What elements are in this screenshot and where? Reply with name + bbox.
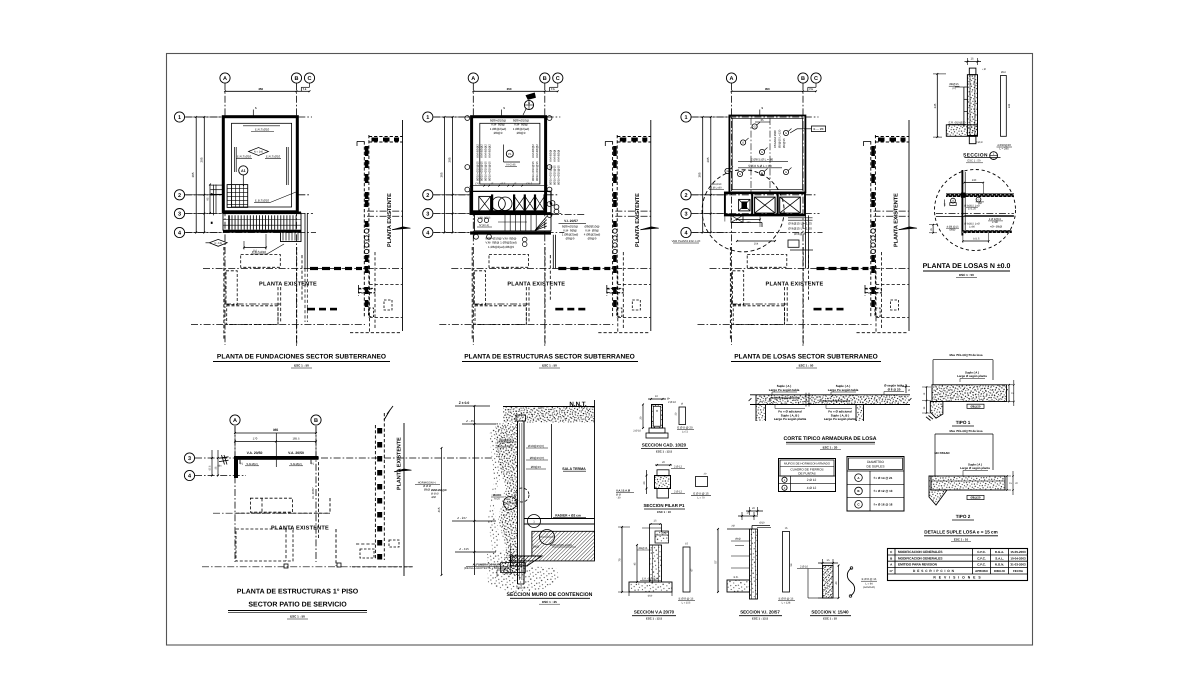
svg-text:3: 3 xyxy=(178,212,181,218)
svg-text:EMPLANTILLADO: EMPLANTILLADO xyxy=(550,544,572,547)
svg-text:2 Ø 12: 2 Ø 12 xyxy=(674,491,683,494)
svg-text:Ø8@: Ø8@ xyxy=(949,228,955,231)
svg-text:2: 2 xyxy=(684,193,687,199)
svg-text:245: 245 xyxy=(933,103,937,108)
muro: wall top cap xyxy=(516,415,526,421)
svg-text:Ø8@15: Ø8@15 xyxy=(949,83,959,86)
section VA: left long dim xyxy=(621,527,623,592)
plan1: axis line 3 horizontal xyxy=(185,213,313,215)
plan2: existing room box lower xyxy=(475,306,526,325)
revision table: column lines xyxy=(894,549,896,575)
plan 3: lower-left notch box xyxy=(731,215,743,222)
svg-text:SECCION CAD. 10/20: SECCION CAD. 10/20 xyxy=(642,443,687,448)
plan3: heavy dash wall on upper axis xyxy=(817,267,825,270)
plan 4: title underline xyxy=(228,610,367,612)
svg-text:B: B xyxy=(314,418,318,424)
plan1: existing building cut line vertical solid xyxy=(402,120,404,331)
svg-text:C.P.C.: C.P.C. xyxy=(977,550,986,554)
plan 2: room corner circles and stub xyxy=(550,201,555,206)
svg-text:Ø8@15: Ø8@15 xyxy=(531,465,542,469)
plan 2: wall pin circles left xyxy=(465,116,470,121)
plan3: grid bubble 2 xyxy=(681,190,691,200)
plan 4: P1 tick marks on beam xyxy=(239,460,241,464)
plan2: grid bubble A xyxy=(468,73,478,83)
plan2: existing wall vertical dashed mid xyxy=(544,247,546,344)
svg-text:CORTE TIPICO ARMADURA DE LOSA: CORTE TIPICO ARMADURA DE LOSA xyxy=(784,436,877,442)
losa detail: texts top-right mark xyxy=(976,197,981,202)
svg-text:Max 70/L=Ø@70 de losa: Max 70/L=Ø@70 de losa xyxy=(950,353,983,357)
svg-text:V.A. 20/50: V.A. 20/50 xyxy=(288,451,304,455)
plan3: axis line B vertical xyxy=(802,83,804,347)
losa detail: top dim 130 xyxy=(964,182,983,184)
svg-text:PLANTA DE LOSAS N ±0.0: PLANTA DE LOSAS N ±0.0 xyxy=(923,263,1011,270)
plan3: existing right rooms xyxy=(864,285,866,296)
svg-text:E.B.S.Ø10: E.B.S.Ø10 xyxy=(255,199,270,203)
svg-text:2: 2 xyxy=(178,193,181,199)
losa detail: vertical wall line xyxy=(961,170,963,236)
plan2: grid bubble 1 xyxy=(423,112,433,122)
svg-text:PLANTA EXISTENTE: PLANTA EXISTENTE xyxy=(397,437,403,490)
svg-text:PLANTA EXISTENTE: PLANTA EXISTENTE xyxy=(259,282,317,288)
tipo1: right dims xyxy=(1008,385,1010,402)
svg-text:P1: P1 xyxy=(508,152,512,156)
pilar p1: lower body xyxy=(657,489,669,499)
corte tipico: left wall leg xyxy=(755,395,757,421)
plan 2: dim row above beam band xyxy=(471,185,547,187)
plan1: axis line 2 horizontal xyxy=(185,194,310,196)
svg-text:385: 385 xyxy=(440,172,444,177)
plan 3: detail reference dashed circle xyxy=(702,170,784,252)
plan 1: small dim bottom xyxy=(244,247,266,249)
plan 4: grid bubble 3 xyxy=(184,453,194,463)
plan 2: column band xyxy=(470,191,551,214)
plan1: grid bubble C xyxy=(304,73,314,83)
plan2: heavy dash wall below B xyxy=(555,308,563,311)
svg-text:E Ø 8 @ 15: E Ø 8 @ 15 xyxy=(779,597,794,601)
plan 3: step line below band xyxy=(731,222,762,224)
svg-text:PLANTA DE FUNDACIONES SECTOR S: PLANTA DE FUNDACIONES SECTOR SUBTERRANEO xyxy=(217,354,386,361)
svg-text:57: 57 xyxy=(714,560,718,564)
svg-text:ESC 1 : 10: ESC 1 : 10 xyxy=(657,510,671,514)
plan3: inner wall crossing dash-dot lines xyxy=(874,210,910,212)
svg-text:ESC 1 : 12.5: ESC 1 : 12.5 xyxy=(646,617,662,621)
svg-text:B: B xyxy=(801,76,805,82)
svg-text:Ø8@15: Ø8@15 xyxy=(517,587,526,590)
svg-text:E.R.S.Ø10: E.R.S.Ø10 xyxy=(255,128,270,132)
svg-text:N°(10·2): N°(10·2) xyxy=(479,224,489,227)
plan 3: beam band with X bracing xyxy=(725,193,805,216)
top-right section: left dim line xyxy=(936,74,938,137)
plan 3: vertical dash axis inside room xyxy=(769,118,771,192)
plan2: axis line 2 horizontal xyxy=(433,194,558,196)
plan3: grid bubble 3 xyxy=(681,209,691,219)
revision table: row lines xyxy=(888,554,1028,556)
plan 2: wall pin circles right xyxy=(547,116,552,121)
plan1: existing wall dashed small right steps xyxy=(301,255,303,300)
plan 4: axis 4 horizontal xyxy=(195,475,246,477)
plan3: existing double wall with hatch xyxy=(870,141,872,317)
svg-text:1 Ø8@2(ad) Ø8@9: 1 Ø8@2(ad) Ø8@9 xyxy=(488,245,514,249)
plan 4: grid bubble 4 xyxy=(184,470,194,480)
tipo2: left wedge xyxy=(929,476,947,505)
plan1: right L-shaped existing walls xyxy=(358,288,375,290)
svg-text:7.5: 7.5 xyxy=(303,88,307,91)
plan1: existing wall vertical dashed left xyxy=(223,247,225,340)
plan2: existing double wall with hatch xyxy=(612,141,614,317)
muro: below-wall rebar hook xyxy=(518,583,525,585)
section V1540: top dim xyxy=(818,562,838,564)
plan 4: lightning mark top xyxy=(384,406,393,420)
plan1: wall thickness dim xyxy=(252,110,254,116)
plan 3: bottom stub line xyxy=(790,249,813,251)
section V1540: right dim xyxy=(838,566,840,599)
muro: ground top stipple band xyxy=(503,407,595,423)
svg-text:V.I. 20/57: V.I. 20/57 xyxy=(311,487,315,499)
plan3: existing top step left xyxy=(864,140,871,142)
svg-text:V.A. 20/50: V.A. 20/50 xyxy=(247,451,263,455)
losa detail: wall crossing square xyxy=(961,193,966,198)
losa detail: slab band 1 dotted xyxy=(946,193,1014,197)
plan2: top dimension B-C jog xyxy=(545,90,558,92)
svg-text:Largo Po según tabla: Largo Po según tabla xyxy=(769,388,800,392)
svg-text:R E V I S I O N E S: R E V I S I O N E S xyxy=(933,576,981,580)
plan3: axis line 2 horizontal xyxy=(691,194,816,196)
plan 3: dim lower long xyxy=(737,240,775,242)
plan 1: level diamond tag lower-left xyxy=(209,239,227,246)
plan3: top dimension B-C jog xyxy=(803,90,816,92)
plan3: wall thickness dim xyxy=(759,110,761,116)
svg-text:E.R.: E.R. xyxy=(734,576,739,579)
section VA: footing stippled xyxy=(629,582,672,592)
svg-text:130: 130 xyxy=(972,179,977,182)
svg-text:DETALLE SUPLE LOSA e = 15 cm: DETALLE SUPLE LOSA e = 15 cm xyxy=(924,530,997,535)
svg-text:170: 170 xyxy=(475,183,480,186)
plan1: existing double wall with hatch xyxy=(363,141,365,317)
tipo1: leader bracket top xyxy=(933,359,993,361)
plan 1: outside mini-dim ladder xyxy=(211,184,224,186)
plan 3: double vertical lines below band xyxy=(805,215,807,268)
svg-text:31-03-2003: 31-03-2003 xyxy=(1010,563,1026,567)
section VA: footing base ticks xyxy=(628,592,630,596)
svg-text:Largo Po según tabla: Largo Po según tabla xyxy=(828,388,859,392)
plan 4: top dim row 2 xyxy=(235,441,316,443)
plan3: axis line A vertical xyxy=(731,83,733,345)
svg-text:MODIFICACION GENERALES: MODIFICACION GENERALES xyxy=(898,556,942,560)
svg-text:A: A xyxy=(223,76,227,82)
plan 2: stair flight below xyxy=(474,215,551,231)
svg-text:8Ø16+Ø10@15: 8Ø16+Ø10@15 xyxy=(488,161,492,181)
plan3: lower room double wall lines xyxy=(731,303,787,305)
svg-text:4 Ø 12: 4 Ø 12 xyxy=(807,486,817,490)
svg-text:Ø8@20: Ø8@20 xyxy=(971,496,981,500)
plan 2: wall pin circles bottom xyxy=(474,234,479,239)
svg-text:7.5: 7.5 xyxy=(809,88,813,91)
svg-text:VER PLANTA ESC.1:20: VER PLANTA ESC.1:20 xyxy=(672,240,701,243)
svg-text:3: 3 xyxy=(426,212,429,218)
svg-text:NO PASAN: NO PASAN xyxy=(934,451,949,455)
plan2: existing lower small box xyxy=(632,300,640,310)
muro: left dim column 1 xyxy=(473,406,475,575)
svg-text:Ø10: Ø10 xyxy=(648,595,653,598)
svg-text:ESC 1 : 50: ESC 1 : 50 xyxy=(799,364,814,368)
plan2: inner wall crossing dash-dot lines xyxy=(615,210,651,212)
svg-text:G: G xyxy=(785,132,787,135)
plan 2: bottom thick wall xyxy=(470,231,551,234)
corte tipico: suple hooks in slab xyxy=(770,397,800,399)
svg-text:• Ø: • Ø xyxy=(982,68,986,71)
svg-text:N+2.45: N+2.45 xyxy=(506,163,516,167)
svg-text:1: 1 xyxy=(684,115,687,121)
svg-text:2 Ø 12: 2 Ø 12 xyxy=(674,466,683,469)
top-right section: left rebar ladder xyxy=(963,87,965,127)
plan1: lower room double wall lines xyxy=(224,303,280,305)
svg-text:R.G.N.: R.G.N. xyxy=(995,563,1004,567)
svg-text:Ø: Ø xyxy=(908,389,910,392)
svg-text:h=25: h=25 xyxy=(494,498,500,501)
svg-text:295: 295 xyxy=(199,157,203,162)
svg-text:f = Ø 12 @ 13: f = Ø 12 @ 13 xyxy=(874,489,893,493)
cad section: stirrup right xyxy=(679,407,686,425)
svg-text:N = 245: N = 245 xyxy=(254,151,264,154)
svg-text:Largo Ø según planta: Largo Ø según planta xyxy=(957,374,987,378)
plan2: existing wall dashed small right steps xyxy=(549,255,551,300)
svg-text:ESC 1 : 50: ESC 1 : 50 xyxy=(959,273,974,277)
plan1: existing wall vertical dashed mid xyxy=(296,247,298,344)
svg-text:ESC 1 : 50: ESC 1 : 50 xyxy=(542,364,557,368)
svg-text:PLANTA EXISTENTE: PLANTA EXISTENTE xyxy=(893,193,899,247)
svg-text:E.R.S.Ø10: E.R.S.Ø10 xyxy=(237,155,252,159)
svg-text:Ø8@20: Ø8@20 xyxy=(971,404,981,408)
plan 1: rebar right vertical pair xyxy=(286,147,288,185)
plan3: right L-shaped existing walls xyxy=(865,288,882,290)
cad section: top dim xyxy=(648,398,666,400)
muro: level Z-45 xyxy=(462,423,496,425)
svg-text:350: 350 xyxy=(258,87,263,91)
plan3: grid bubble A xyxy=(726,73,736,83)
svg-text:Ø10@15(V): Ø10@15(V) xyxy=(528,444,544,448)
svg-text:PLANTA EXISTENTE: PLANTA EXISTENTE xyxy=(387,193,393,247)
top-right section: wall cap box xyxy=(969,68,976,75)
plan1: axis line 1 horizontal xyxy=(185,116,312,118)
svg-text:f = Ø 14 @ 21: f = Ø 14 @ 21 xyxy=(874,476,893,480)
plan 2: room inner outline xyxy=(480,123,540,184)
plan 3: room walls (medium) xyxy=(729,116,805,193)
svg-text:2 Ø 12: 2 Ø 12 xyxy=(807,478,817,482)
tipo1: slab band stippled xyxy=(932,385,1007,402)
table fierros: outer box xyxy=(779,459,836,492)
cad section: left dim xyxy=(642,405,644,429)
top-right section: wall bar hatched xyxy=(967,75,977,136)
plan2: grid bubble 4 xyxy=(423,227,433,237)
svg-text:Ø8@15+Ø12: Ø8@15+Ø12 xyxy=(497,445,514,449)
plan2: existing right rooms xyxy=(606,285,608,296)
svg-text:Ø 8@15: Ø 8@15 xyxy=(794,232,806,236)
plan 4: grid bubble B xyxy=(311,415,321,425)
svg-text:2 Ø 10: 2 Ø 10 xyxy=(800,566,809,569)
plan2: axis line 3 horizontal xyxy=(433,213,561,215)
svg-text:E.R.S.Ø10: E.R.S.Ø10 xyxy=(266,155,281,159)
plan 4: thick beam horizontal xyxy=(234,456,319,460)
svg-text:5.Ø.8 S.Ø L = 80: 5.Ø.8 S.Ø L = 80 xyxy=(748,164,771,168)
plan 2: center axis cross and circle xyxy=(503,145,505,163)
svg-text:1: 1 xyxy=(178,115,181,121)
muro: footing hatched big xyxy=(511,531,595,561)
svg-text:L=1.25: L=1.25 xyxy=(968,207,977,210)
plan2: existing building cut line vertical solid xyxy=(650,120,652,331)
svg-text:(GANCHO): (GANCHO) xyxy=(863,586,875,589)
svg-text:P1: P1 xyxy=(240,463,244,466)
svg-text:S.M.Ø(2): S.M.Ø(2) xyxy=(290,462,301,466)
svg-text:P1: P1 xyxy=(311,463,315,466)
svg-text:Z - 415: Z - 415 xyxy=(459,547,469,551)
plan1: existing plan dash-dot axis long horizontal lower xyxy=(191,324,365,326)
losa detail: circled mark 1 xyxy=(951,198,956,203)
section VA: mid dim xyxy=(636,545,638,582)
svg-text:A: A xyxy=(471,76,475,82)
svg-text:G: G xyxy=(978,199,980,202)
plan 1: lower-left stair grid xyxy=(227,185,248,208)
plan1: grid bubble A xyxy=(220,73,230,83)
plan1: existing wall dashed vertical inner double xyxy=(277,287,279,325)
plan 4: right arrow marker xyxy=(394,469,412,472)
svg-text:Z - 247: Z - 247 xyxy=(457,516,467,520)
plan1: existing plan dash-dot axis long horizontal upper xyxy=(203,268,402,270)
svg-text:•ØØ: •ØØ xyxy=(431,496,436,499)
section VA: upper outline xyxy=(650,523,662,525)
svg-text:ESC 1 : 10: ESC 1 : 10 xyxy=(823,617,837,621)
svg-text:L = 138: L = 138 xyxy=(782,602,791,605)
svg-text:E Ø 8 @ 15: E Ø 8 @ 15 xyxy=(679,597,694,601)
svg-text:Ø8@15: Ø8@15 xyxy=(782,138,786,148)
plan3: axis line 1 horizontal xyxy=(691,116,818,118)
plan3: grid bubble 4 xyxy=(681,227,691,237)
svg-text:355: 355 xyxy=(273,428,279,432)
muro: level Z-247 xyxy=(452,520,496,522)
svg-text:3: 3 xyxy=(684,212,687,218)
table suples: outer box xyxy=(847,457,904,512)
losa detail: dashed circle xyxy=(935,170,1016,251)
plan 1: detail circle A1 xyxy=(239,166,248,175)
table fierros: row 1 xyxy=(779,475,836,477)
plan1: heavy dash wall on upper axis xyxy=(310,267,318,270)
misc: small dim figure left of sections xyxy=(738,515,758,517)
svg-text:Ø: Ø xyxy=(681,403,683,406)
svg-text:70: 70 xyxy=(618,558,622,562)
cad section: footing xyxy=(649,428,665,433)
plan1: grid bubble 3 xyxy=(174,209,184,219)
pilar p1: body stippled xyxy=(655,476,671,489)
plan 4: long dash-dot lines xyxy=(213,512,330,514)
svg-text:Largo Po según planta: Largo Po según planta xyxy=(774,417,807,421)
plan 1: left small dim near stair xyxy=(209,185,211,214)
svg-text:TIPO 2: TIPO 2 xyxy=(956,514,971,519)
svg-text:2 Ø 10: 2 Ø 10 xyxy=(633,430,641,433)
top-right section: right bar rect xyxy=(1001,76,1007,137)
plan2: lower room double wall lines xyxy=(472,303,528,305)
plan2: right L-shaped existing walls xyxy=(607,288,624,290)
plan 4: right outer solid line xyxy=(403,423,405,576)
plan1: axis line A vertical xyxy=(224,83,226,345)
svg-text:Largo Po según planta: Largo Po según planta xyxy=(824,417,857,421)
muro: interior floor double line (radier) xyxy=(524,518,595,520)
plan3: existing plan dash-dot axis long horizontal lower xyxy=(698,324,872,326)
svg-text:Z ± 0.0: Z ± 0.0 xyxy=(459,401,470,405)
plan3: existing lower small box xyxy=(891,300,899,310)
revision table: outer box xyxy=(888,549,1028,581)
svg-text:110: 110 xyxy=(253,250,258,253)
plan3: left dimension chain xyxy=(710,117,712,233)
svg-text:SECCION PILAR P1: SECCION PILAR P1 xyxy=(644,503,686,508)
plan2: left dimension chain xyxy=(452,117,454,233)
plan 4: existing rooms below xyxy=(250,498,292,512)
section VI: top dim xyxy=(746,510,763,512)
plan3: grid bubble 1 xyxy=(681,112,691,122)
svg-text:PASADA Ø8Ø: PASADA Ø8Ø xyxy=(773,130,777,148)
plan1: existing top step left xyxy=(357,140,364,142)
svg-text:B: B xyxy=(543,76,547,82)
plan1: grid bubble B xyxy=(291,73,301,83)
svg-text:ESC 1 : 25: ESC 1 : 25 xyxy=(542,600,557,604)
plan3: existing building cut line vertical solid xyxy=(908,120,910,331)
svg-text:15: 15 xyxy=(970,57,974,61)
svg-text:Ø8@15(H): Ø8@15(H) xyxy=(530,456,545,460)
plan1: left dim extension ticks xyxy=(186,116,225,118)
svg-text:8Ø16+Ø10@15: 8Ø16+Ø10@15 xyxy=(535,161,539,181)
svg-text:Ø8@: Ø8@ xyxy=(735,538,741,541)
corte tipico: mid wall leg xyxy=(855,405,857,422)
svg-text:57.5: 57.5 xyxy=(209,465,212,470)
section VI: footing stippled xyxy=(727,580,750,592)
svg-text:ESC 1 : 50: ESC 1 : 50 xyxy=(290,615,305,619)
plan 4: right existing strip xyxy=(374,425,376,560)
svg-text:- 30: - 30 xyxy=(616,497,621,500)
plan1: section arrow marker xyxy=(392,227,411,230)
svg-text:(V): (V) xyxy=(952,87,956,90)
svg-text:E Ø 8 @ 15: E Ø 8 @ 15 xyxy=(693,491,709,495)
svg-text:DIBUJO: DIBUJO xyxy=(994,569,1006,573)
pilar p1: stirrup right xyxy=(696,477,708,487)
svg-text:101.5: 101.5 xyxy=(973,238,980,241)
plan1: axis line 4 horizontal xyxy=(185,232,316,234)
plan2: heavy dash wall on upper axis xyxy=(558,267,566,270)
svg-text:G: G xyxy=(761,151,763,154)
plan 1: center diamond tag xyxy=(249,148,269,156)
svg-text:L=80: L=80 xyxy=(992,221,999,224)
plan 4: left small dims xyxy=(211,450,213,476)
svg-text:C: C xyxy=(556,76,560,82)
plan3: grid bubble C xyxy=(811,73,821,83)
svg-text:ØØ: ØØ xyxy=(978,202,982,205)
plan 4: top dim row 1 xyxy=(235,432,316,434)
svg-text:Ø8@: Ø8@ xyxy=(424,489,431,492)
svg-text:RADIER + Ø2 cm: RADIER + Ø2 cm xyxy=(555,514,581,518)
svg-text:G: G xyxy=(754,126,756,129)
svg-text:35: 35 xyxy=(760,118,764,122)
muro: wall base detail circle xyxy=(515,488,529,502)
plan 4: grid bubble A xyxy=(230,415,240,425)
muro: level Z+0.0 xyxy=(455,405,490,407)
plan1: existing room box left xyxy=(226,271,237,305)
svg-text:MURO: MURO xyxy=(493,493,502,497)
svg-text:C.P.C.: C.P.C. xyxy=(977,556,986,560)
svg-text:Largo Ø según planta: Largo Ø según planta xyxy=(960,466,990,470)
plan2: top dimension line A-B xyxy=(473,90,545,92)
svg-text:185.5: 185.5 xyxy=(293,437,300,441)
tipo2: right dims xyxy=(1006,476,1008,490)
svg-text:f = Ø 16 @ 16: f = Ø 16 @ 16 xyxy=(874,503,893,507)
svg-text:A: A xyxy=(233,418,237,424)
table fierros: header xyxy=(780,460,834,476)
